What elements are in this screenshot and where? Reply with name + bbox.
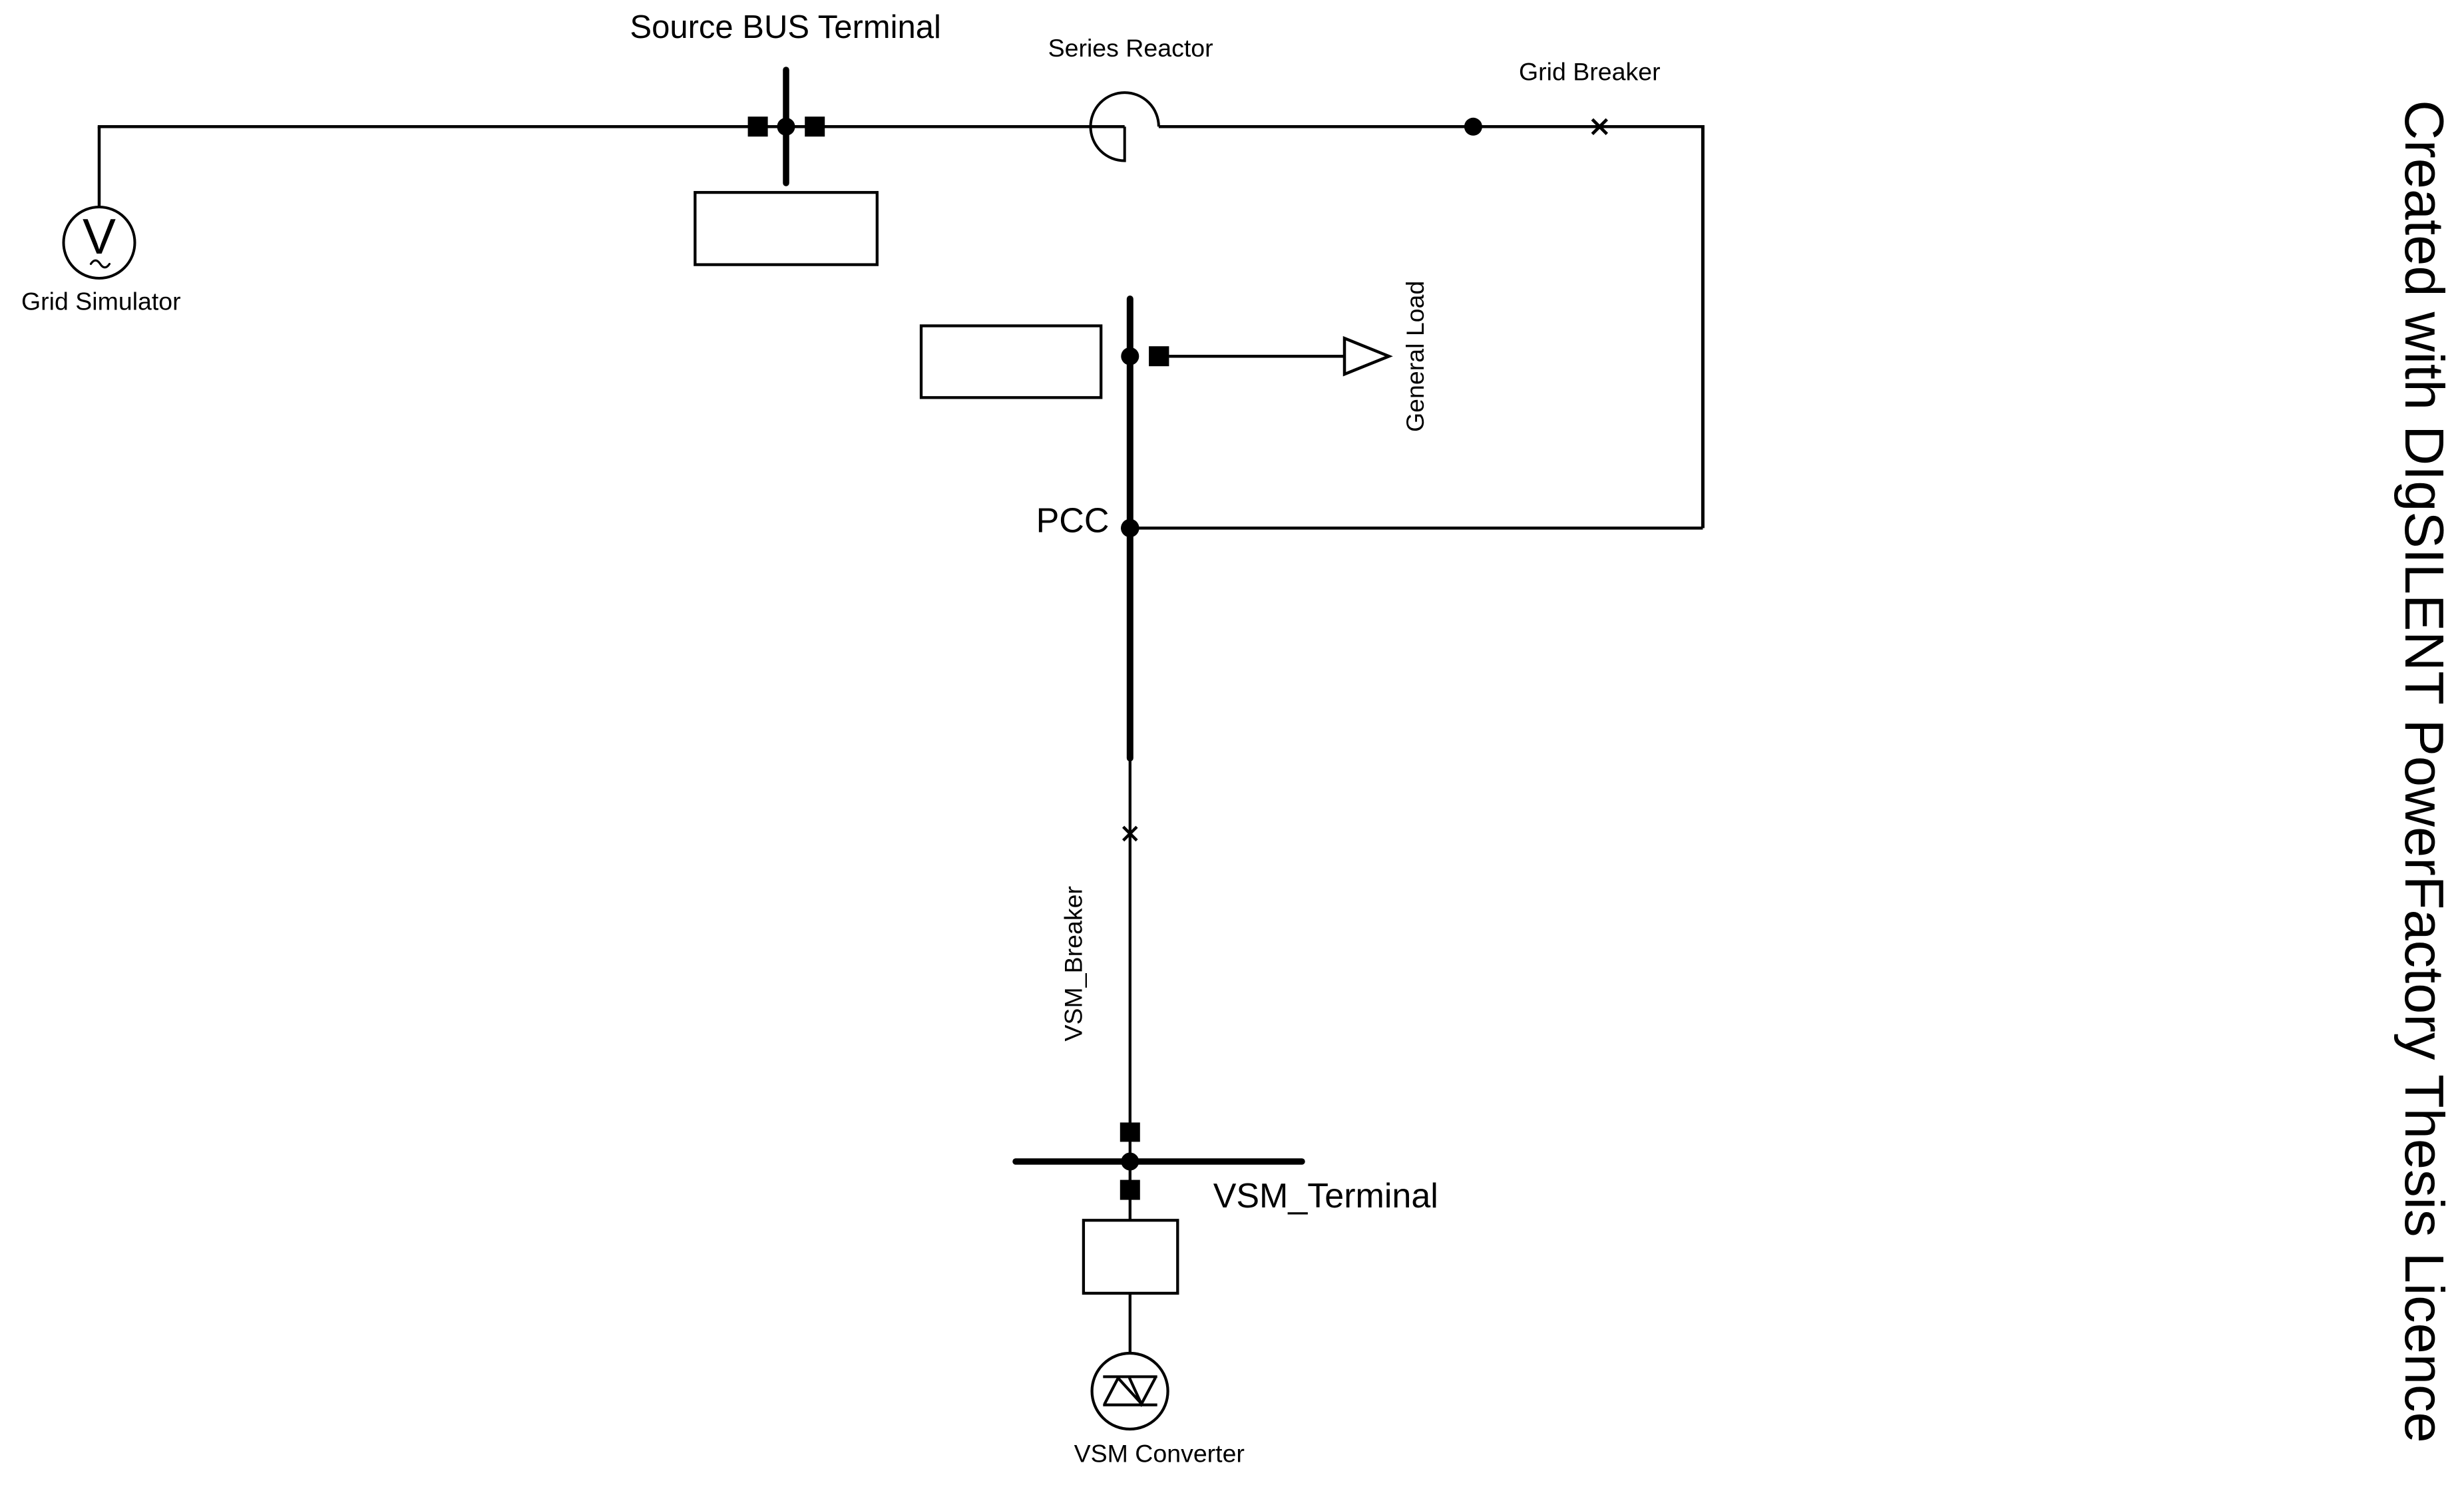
wire horizontal from right vertical to PCC (1130, 527, 1703, 530)
junction dot on Source BUS Terminal (777, 118, 795, 136)
reactor L1 Series Reactor symbol (1091, 93, 1159, 160)
junction dot PCC at load branch (1121, 347, 1139, 365)
svg-text:PCC: PCC (1036, 502, 1110, 540)
wire VSM_Breaker line from PCC down to VSM_Terminal (1129, 759, 1131, 1162)
closed switch dot of Grid Breaker (1464, 118, 1482, 136)
wire right vertical from Grid Breaker corner down to PCC branch (1701, 125, 1705, 528)
wire of General Load branch (1169, 355, 1344, 358)
svg-text:VSM_Terminal: VSM_Terminal (1213, 1177, 1438, 1215)
switch square below VSM_Terminal (1120, 1180, 1140, 1200)
switch square of General Load branch (1149, 346, 1169, 366)
load arrow General Load (1344, 338, 1389, 374)
result box under Source BUS Terminal (695, 192, 877, 265)
wire from Grid Simulator up to top bus line (98, 126, 101, 208)
busbar Source BUS Terminal (783, 70, 789, 183)
result box at PCC (921, 326, 1101, 398)
svg-text:Source BUS Terminal: Source BUS Terminal (630, 9, 941, 45)
svg-text:VSM Converter: VSM Converter (1074, 1440, 1245, 1468)
junction dot PCC at grid branch (1121, 519, 1139, 538)
converter U1 VSM Converter circle (1092, 1353, 1168, 1429)
svg-text:Series Reactor: Series Reactor (1048, 34, 1213, 62)
svg-text:VSM_Breaker: VSM_Breaker (1059, 886, 1087, 1041)
open switch x-mark of Grid Breaker (1592, 119, 1607, 134)
switch square right of Source BUS Terminal (805, 116, 825, 136)
wire from Series Reactor to Grid Breaker corner (1159, 125, 1703, 128)
busbar VSM_Terminal (1016, 1158, 1302, 1165)
voltage source V1 Grid Simulator circle (64, 207, 135, 278)
wire from VSM_Terminal down to result box (1129, 1162, 1131, 1221)
svg-text:Grid Simulator: Grid Simulator (21, 288, 181, 316)
open switch x-mark of VSM_Breaker (1124, 827, 1137, 840)
svg-text:General Load: General Load (1401, 281, 1429, 432)
svg-text:Created with DIgSILENT PowerFa: Created with DIgSILENT PowerFactory Thes… (2393, 100, 2455, 1442)
wire from result box down to VSM Converter (1129, 1293, 1131, 1355)
svg-text:V: V (83, 208, 116, 264)
busbar PCC (1127, 299, 1133, 758)
tilde AC mark inside Grid Simulator (91, 260, 110, 268)
switch square left of Source BUS Terminal (748, 116, 768, 136)
wire top horizontal from Grid Simulator corner to Series Reactor (98, 125, 1125, 128)
result box at VSM_Terminal (1084, 1220, 1177, 1293)
junction dot on VSM_Terminal (1121, 1153, 1139, 1171)
switch square above VSM_Terminal (1120, 1122, 1140, 1142)
svg-text:Grid Breaker: Grid Breaker (1519, 57, 1661, 85)
converter symbol triangles inside VSM Converter (1103, 1377, 1157, 1404)
